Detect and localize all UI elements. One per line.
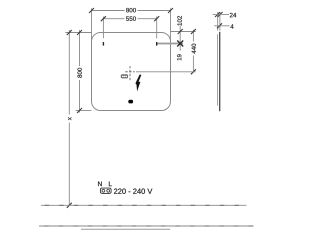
dimension 4: tick + leader: [217, 23, 222, 28]
label 440 (rotated): [190, 42, 198, 56]
shelf line under floor line 2: [81, 228, 170, 230]
tick top 800h: [77, 30, 82, 35]
mounting rail (thick grey line): [158, 43, 184, 45]
label x (rotated): [66, 115, 74, 123]
sensor dot: [128, 100, 133, 104]
side view: back box (grey line): [217, 34, 219, 105]
floor line 1 dark dashes: [45, 204, 239, 206]
side view extension lines up: [217, 12, 219, 31]
label 4: [230, 24, 233, 28]
crosshair (dashed centre mark): [129, 66, 131, 81]
lightning bolt symbol: [135, 75, 141, 92]
label 102 (rotated): [177, 16, 181, 26]
floor line 2 dark dashes: [44, 225, 253, 227]
tick 440 top: [191, 29, 196, 34]
dimension x: dimension line (mounting height): [68, 30, 70, 205]
tick right 550: [154, 16, 159, 21]
tick bottom 800h: [77, 108, 82, 113]
dimension 550: dimension line: [103, 18, 156, 20]
tick left 800: [89, 8, 94, 13]
mirror bottom extension to the left: [76, 110, 92, 112]
label 550: [125, 15, 138, 22]
mounting bracket right: [156, 42, 158, 46]
X arrows at rail (102 bottom + 19 top): [177, 41, 183, 47]
tick left 550: [101, 16, 106, 21]
floor line 1 (upper wall line): [41, 204, 247, 206]
dimension 800 height: dimension line: [79, 30, 81, 113]
label 24: [230, 13, 236, 17]
label 800 (width): [125, 7, 138, 14]
tick bottom x-dim: [67, 203, 72, 208]
dimension 800 width: extension line left: [91, 8, 93, 41]
leader line from crosshair to 440 dim: [136, 71, 196, 73]
tick 440 bottom: [191, 69, 196, 74]
dimension 550: extension line left: [102, 17, 104, 39]
label 220 - 240 V: [114, 189, 152, 194]
label 800 (height, rotated): [76, 66, 83, 80]
mirror top extension to the right: [171, 31, 196, 33]
tick 102 at mirror top ext: [178, 29, 183, 34]
label L: [109, 182, 112, 187]
mirror top extension to the left: [65, 32, 91, 34]
tick right 800: [168, 8, 173, 13]
dimension 24: ticks + leader: [215, 12, 220, 17]
tick top x-dim: [67, 30, 72, 35]
junction box symbol on mirror: [121, 74, 128, 78]
dimension 102/19: vertical line: [179, 26, 181, 51]
dimension 800 width: dimension line: [92, 10, 171, 12]
dimension 800 width: extension line right: [170, 8, 172, 41]
mounting bracket left: [102, 42, 104, 46]
label N: [98, 182, 102, 187]
floor line 2 (lower wall line): [39, 225, 254, 227]
side view: mirror glass (dark line): [219, 32, 221, 111]
dimension 440: dimension line: [192, 30, 194, 72]
mains connector symbol: [100, 188, 111, 193]
label 19 (rotated): [177, 54, 181, 60]
mirror front view outline: [92, 33, 171, 111]
dimension 550: extension line right: [156, 17, 158, 39]
